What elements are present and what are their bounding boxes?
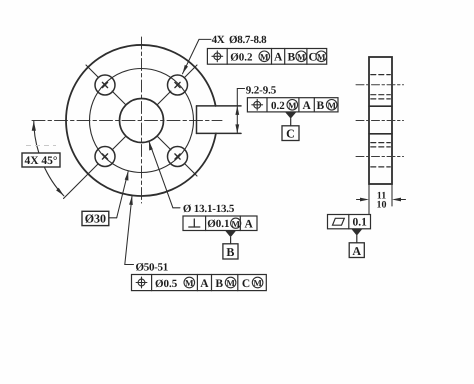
feature control frame: position of OD bbox=[132, 275, 267, 291]
datum C flag bbox=[282, 112, 299, 141]
svg-text:M: M bbox=[226, 278, 235, 288]
svg-text:10: 10 bbox=[377, 200, 387, 211]
svg-text:B: B bbox=[287, 52, 295, 64]
svg-text:A: A bbox=[352, 244, 361, 258]
position symbol bbox=[136, 277, 147, 288]
svg-text:9.2-9.5: 9.2-9.5 bbox=[246, 84, 277, 96]
svg-text:Ø30: Ø30 bbox=[85, 212, 106, 226]
centerline vertical (front view) bbox=[141, 37, 143, 203]
angular dimension arc 45 bbox=[32, 121, 64, 196]
hidden line hole top edge (lower) bbox=[371, 146, 391, 148]
svg-text:0.1: 0.1 bbox=[353, 217, 368, 229]
hub circle (center bore) bbox=[120, 99, 164, 143]
svg-text:A: A bbox=[244, 218, 253, 230]
diagonal centerline top-left hole bbox=[86, 65, 126, 105]
perpendicularity symbol bbox=[189, 219, 200, 227]
svg-text:M: M bbox=[288, 101, 297, 111]
feature control frame: flatness bbox=[328, 215, 371, 229]
feature control frame: perpendicularity of bore bbox=[183, 216, 257, 231]
thickness dim arrows bbox=[357, 198, 406, 202]
label box dia 30 bbox=[82, 211, 109, 225]
svg-text:Ø50-51: Ø50-51 bbox=[136, 262, 168, 274]
datum A flag bbox=[349, 229, 364, 258]
leader 4X holes callout bbox=[183, 39, 212, 73]
datum B flag bbox=[223, 231, 238, 260]
extension line right (thickness dim) bbox=[391, 184, 393, 206]
hole top-right bbox=[168, 75, 188, 95]
position symbol bbox=[252, 99, 263, 110]
diagonal centerline bottom-left hole (extended for angle dim) bbox=[64, 136, 126, 198]
hole bottom-right bbox=[168, 147, 188, 167]
hidden line bore bottom edge bbox=[371, 142, 391, 144]
leader diameter 30 bbox=[109, 171, 129, 218]
extension line left (thickness dim) bbox=[368, 184, 370, 215]
leader diameter 50-51 bbox=[125, 196, 134, 265]
centerline top holes (side view) bbox=[356, 84, 404, 86]
svg-text:Ø0.5: Ø0.5 bbox=[155, 278, 178, 290]
svg-text:M: M bbox=[253, 278, 262, 288]
svg-text:A: A bbox=[200, 278, 209, 290]
slot (tab cutout) right side bbox=[197, 106, 242, 133]
svg-text:4X 45°: 4X 45° bbox=[24, 155, 57, 167]
svg-text:0.2: 0.2 bbox=[271, 100, 285, 112]
diagonal centerline bottom-right hole bbox=[157, 136, 197, 176]
position symbol bbox=[212, 51, 223, 62]
label box 4X 45 bbox=[22, 153, 60, 167]
centerline middle (side view) bbox=[356, 120, 404, 122]
svg-text:C: C bbox=[286, 127, 295, 141]
svg-text:B: B bbox=[215, 278, 223, 290]
svg-text:M: M bbox=[317, 52, 326, 62]
slot width dimension line bbox=[235, 89, 244, 134]
svg-text:A: A bbox=[302, 100, 311, 112]
hole top-left bbox=[95, 75, 115, 95]
feature control frame: position of 4X holes bbox=[207, 49, 326, 65]
bolt circle bbox=[90, 69, 194, 173]
hidden line bore top edge bbox=[371, 98, 391, 100]
hidden line hole bottom edge (upper) bbox=[371, 94, 391, 96]
hidden line hole bottom edge (lower) bbox=[371, 166, 391, 168]
svg-text:Ø0.1: Ø0.1 bbox=[207, 218, 229, 230]
svg-text:A: A bbox=[274, 52, 283, 64]
svg-text:B: B bbox=[226, 245, 234, 259]
svg-text:C: C bbox=[242, 278, 250, 290]
hole bottom-left bbox=[95, 147, 115, 167]
side view outline bbox=[369, 57, 392, 184]
svg-text:C: C bbox=[308, 52, 316, 64]
flatness symbol bbox=[333, 218, 345, 225]
leader center bore 13.1-13.5 bbox=[149, 141, 180, 208]
outer circle (flange OD, slot gap at right) bbox=[66, 45, 216, 196]
svg-text:Ø 13.1-13.5: Ø 13.1-13.5 bbox=[183, 203, 235, 215]
svg-text:M: M bbox=[297, 52, 306, 62]
centerline horizontal (front view) bbox=[32, 120, 222, 122]
svg-text:B: B bbox=[316, 100, 324, 112]
svg-text:M: M bbox=[260, 52, 269, 62]
hidden line hole top edge (upper) bbox=[371, 74, 391, 76]
faint scan artifact dashes bbox=[26, 145, 56, 147]
centerline bottom holes (side view) bbox=[356, 156, 404, 158]
svg-text:Ø0.2: Ø0.2 bbox=[230, 52, 253, 64]
diagonal centerline top-right hole bbox=[157, 65, 197, 105]
svg-text:M: M bbox=[327, 101, 336, 111]
slot edges in side view bbox=[369, 105, 392, 107]
svg-text:4XØ8.7-8.8: 4XØ8.7-8.8 bbox=[212, 34, 268, 46]
svg-text:M: M bbox=[231, 219, 240, 229]
feature control frame: position of slot bbox=[247, 98, 338, 113]
svg-text:M: M bbox=[185, 278, 194, 288]
